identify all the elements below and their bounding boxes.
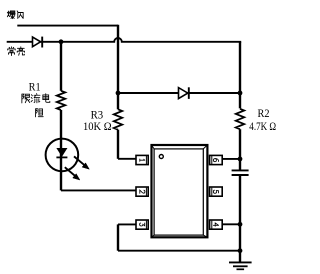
svg-text:R2: R2 bbox=[258, 106, 270, 120]
svg-text:10K Ω: 10K Ω bbox=[83, 119, 112, 133]
svg-text:4.7K Ω: 4.7K Ω bbox=[249, 119, 276, 133]
svg-text:R1: R1 bbox=[29, 79, 41, 93]
